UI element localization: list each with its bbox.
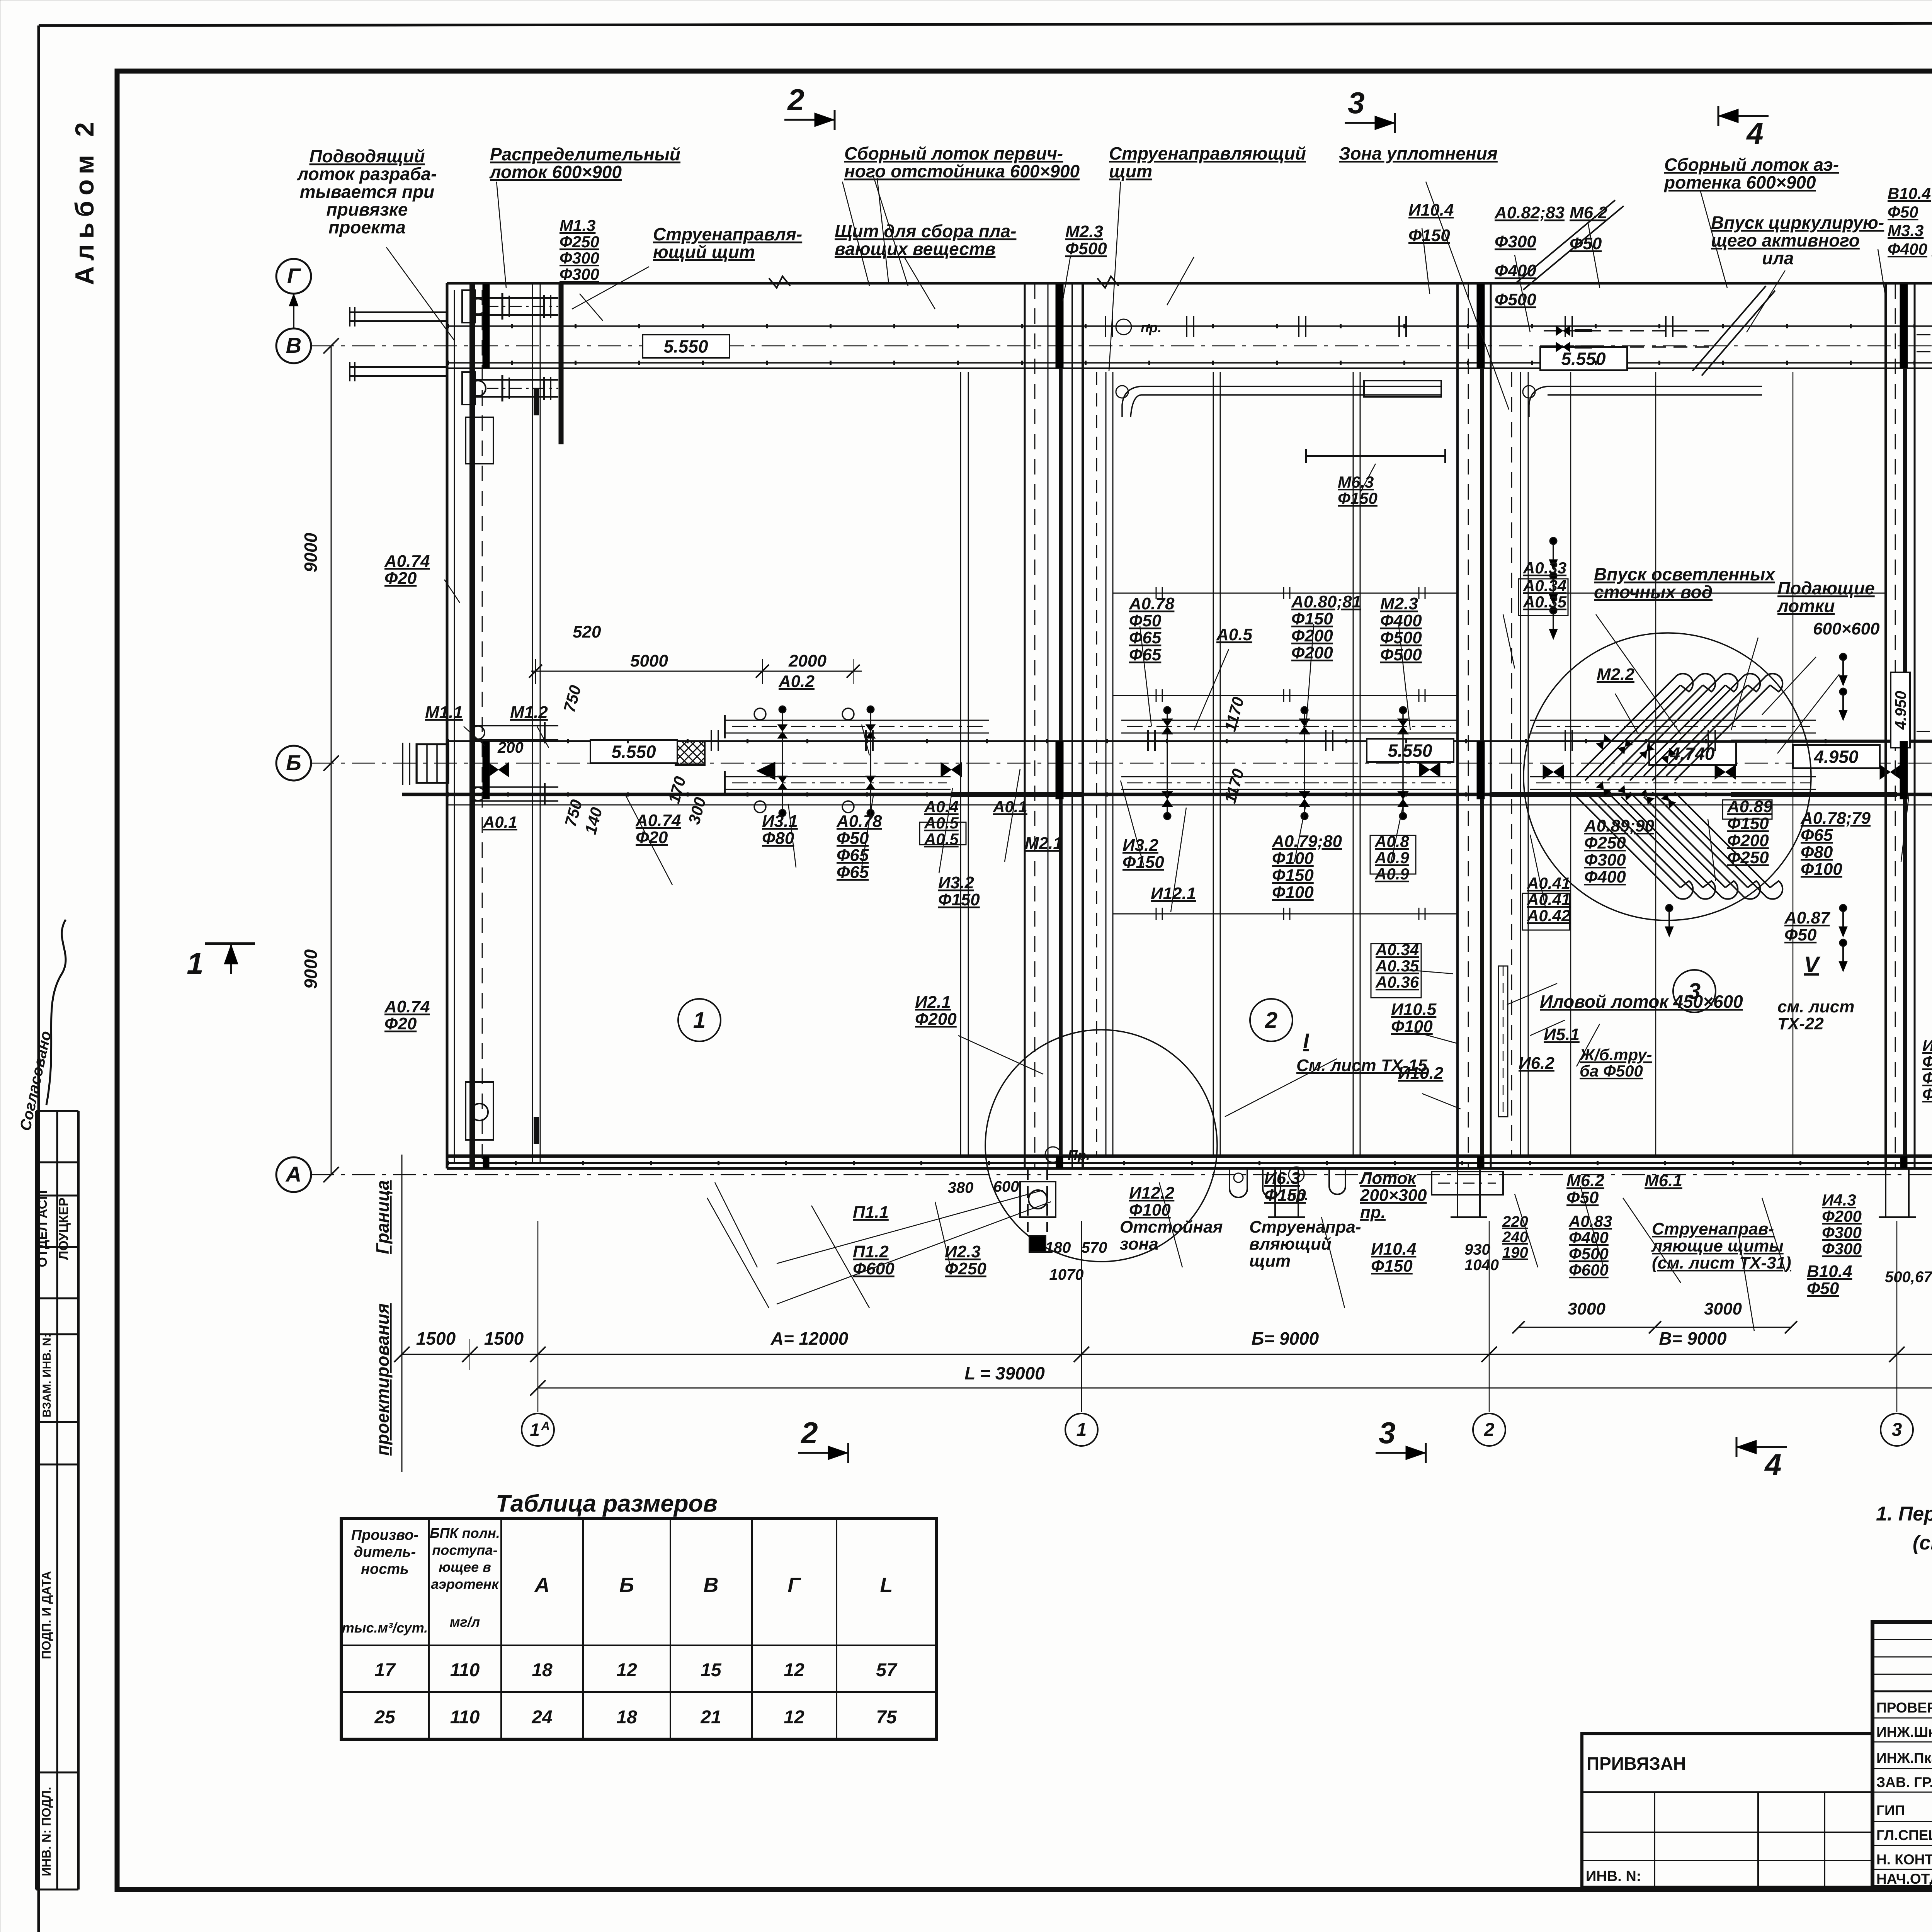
svg-text:3000: 3000 <box>1568 1299 1605 1318</box>
А0.2 pipe runs on Б tank1 <box>726 720 989 721</box>
svg-text:12: 12 <box>616 1660 637 1680</box>
svg-text:1500: 1500 <box>416 1328 456 1349</box>
axis line А <box>311 1174 1932 1175</box>
svg-text:И2.3: И2.3 <box>945 1242 981 1261</box>
svg-text:М1.1: М1.1 <box>425 703 463 722</box>
svg-text:ИНЖ.Шкат: ИНЖ.Шкат <box>1876 1724 1932 1740</box>
svg-text:И2.1: И2.1 <box>915 993 951 1012</box>
svg-text:М6.3: М6.3 <box>1338 473 1374 491</box>
tank2 left dashed riser <box>1096 372 1097 1156</box>
column 2 wall <box>1456 283 1459 1168</box>
tank2 partitions <box>1213 372 1214 1156</box>
svg-text:И10.5: И10.5 <box>1391 1000 1437 1019</box>
svg-text:М3.3: М3.3 <box>1888 221 1923 240</box>
svg-text:А0.5: А0.5 <box>924 830 959 848</box>
svg-text:ГЛ.СПЕЦ.: ГЛ.СПЕЦ. <box>1876 1827 1932 1843</box>
svg-text:1500: 1500 <box>484 1328 524 1349</box>
svg-text:190: 190 <box>1502 1244 1528 1261</box>
tank3 inner vertical <box>1570 372 1571 1156</box>
distribution channel walls <box>532 283 533 1163</box>
svg-text:Ф250: Ф250 <box>560 233 599 251</box>
svg-text:М2.3: М2.3 <box>1380 594 1418 613</box>
tank1 right inner vertical pair <box>960 372 961 1156</box>
svg-text:М1.2: М1.2 <box>510 703 548 722</box>
detail circle I <box>985 1030 1217 1262</box>
svg-text:М6.2: М6.2 <box>1566 1171 1604 1190</box>
svg-text:600: 600 <box>993 1178 1019 1195</box>
svg-text:240: 240 <box>1502 1229 1528 1246</box>
svg-text:В10.4: В10.4 <box>1807 1262 1852 1281</box>
svg-text:А0.74: А0.74 <box>384 997 430 1016</box>
approval scribble <box>46 920 66 1105</box>
section marks top <box>784 119 835 121</box>
svg-text:Ф200: Ф200 <box>1727 831 1769 850</box>
svg-text:А0.35: А0.35 <box>1523 593 1567 611</box>
svg-text:1: 1 <box>530 1420 540 1440</box>
svg-text:24: 24 <box>531 1707 552 1728</box>
svg-text:Струенапра-: Струенапра- <box>1249 1218 1361 1236</box>
svg-text:12: 12 <box>784 1707 804 1728</box>
left wall И2.1 assembly boxes <box>466 1082 493 1140</box>
axis circle А <box>276 1157 311 1192</box>
svg-text:щего активного: щего активного <box>1711 230 1860 250</box>
svg-text:Струенаправ-: Струенаправ- <box>1652 1219 1774 1238</box>
svg-text:И6.2: И6.2 <box>1519 1054 1554 1073</box>
svg-text:1040: 1040 <box>1464 1257 1499 1274</box>
svg-text:4: 4 <box>1746 116 1763 150</box>
axis circle В <box>276 328 311 363</box>
size table <box>341 1519 936 1739</box>
longitudinal pipes in Б band segments <box>1121 720 1457 721</box>
svg-text:И4.3: И4.3 <box>1822 1191 1856 1209</box>
svg-text:ЛОУЦКЕР: ЛОУЦКЕР <box>56 1197 71 1260</box>
svg-text:см. лист: см. лист <box>1777 997 1854 1016</box>
svg-text:9000: 9000 <box>301 949 321 989</box>
column 3 wall <box>1884 283 1887 1168</box>
svg-text:И10.2: И10.2 <box>1398 1064 1444 1083</box>
svg-text:Ф150: Ф150 <box>1408 226 1450 245</box>
svg-text:Б: Б <box>619 1573 634 1597</box>
svg-text:4.950: 4.950 <box>1813 747 1859 767</box>
svg-text:3: 3 <box>1892 1420 1902 1440</box>
svg-text:И10.4: И10.4 <box>1408 201 1454 219</box>
svg-text:15: 15 <box>701 1660 722 1680</box>
svg-text:Ф150: Ф150 <box>1264 1186 1306 1205</box>
svg-text:Лоток: Лоток <box>1359 1169 1417 1188</box>
column 1 wall <box>1024 283 1026 1168</box>
svg-text:А0.1: А0.1 <box>993 798 1027 816</box>
svg-text:ба Ф500: ба Ф500 <box>1580 1062 1643 1080</box>
left outer wall <box>446 283 449 1168</box>
svg-text:500,670: 500,670 <box>1885 1269 1932 1286</box>
svg-text:Ф400: Ф400 <box>1888 240 1927 258</box>
svg-text:Ф500: Ф500 <box>1495 290 1536 309</box>
svg-text:ющее в: ющее в <box>439 1559 491 1575</box>
svg-text:Ф150: Ф150 <box>1291 609 1333 628</box>
svg-text:Ф50: Ф50 <box>1807 1279 1839 1298</box>
tank2 cross members <box>1113 593 1457 594</box>
svg-text:А: А <box>541 1420 550 1432</box>
svg-text:М6.2: М6.2 <box>1570 203 1607 222</box>
svg-text:110: 110 <box>450 1707 480 1728</box>
привязан table <box>1582 1734 1872 1887</box>
svg-text:Ф65: Ф65 <box>1129 645 1162 664</box>
svg-text:18: 18 <box>616 1707 637 1728</box>
svg-text:И10.4: И10.4 <box>1371 1240 1416 1259</box>
svg-text:4.950: 4.950 <box>1892 691 1909 730</box>
svg-text:А0.79;80: А0.79;80 <box>1272 832 1342 851</box>
diagonal feed channels upper <box>1577 677 1675 776</box>
svg-text:I: I <box>1303 1029 1309 1053</box>
svg-text:Ф50: Ф50 <box>1129 611 1162 630</box>
svg-text:Б= 9000: Б= 9000 <box>1252 1328 1319 1349</box>
svg-text:1: 1 <box>693 1008 706 1033</box>
diagonal feed channels lower <box>1577 797 1675 895</box>
svg-text:М6.1: М6.1 <box>1645 1171 1682 1190</box>
svg-text:ИНВ. N:: ИНВ. N: <box>1586 1868 1641 1884</box>
svg-text:Ф500: Ф500 <box>1569 1245 1609 1263</box>
svg-text:3000: 3000 <box>1704 1299 1742 1318</box>
svg-text:ность: ность <box>361 1561 409 1577</box>
svg-text:1: 1 <box>1077 1420 1087 1440</box>
tank3 top П-pipe <box>1548 386 1762 387</box>
svg-text:Ф400: Ф400 <box>1584 867 1626 886</box>
svg-text:проекта: проекта <box>328 217 406 237</box>
svg-text:Ф100: Ф100 <box>1272 883 1314 902</box>
svg-text:ГИП: ГИП <box>1876 1803 1905 1818</box>
svg-text:520: 520 <box>573 622 601 641</box>
svg-text:5.550: 5.550 <box>1388 741 1432 761</box>
svg-text:А0.4: А0.4 <box>924 798 959 816</box>
crosshatched gate on Б <box>675 741 705 765</box>
svg-text:А: А <box>285 1162 301 1186</box>
tank3 left walls <box>1511 372 1512 1156</box>
svg-text:2: 2 <box>1265 1008 1277 1033</box>
svg-text:(см. лист ТХ-31): (см. лист ТХ-31) <box>1652 1253 1791 1272</box>
svg-text:Ф250: Ф250 <box>1727 848 1769 867</box>
flow guide shield black bar <box>559 284 564 444</box>
svg-text:Ф300: Ф300 <box>1584 850 1626 869</box>
svg-text:ного отстойника 600×900: ного отстойника 600×900 <box>844 161 1080 181</box>
svg-text:200: 200 <box>497 739 524 756</box>
svg-text:Ф400: Ф400 <box>1495 261 1536 280</box>
svg-text:Иловой лоток 450×600: Иловой лоток 450×600 <box>1540 992 1743 1012</box>
svg-text:лотки: лотки <box>1777 596 1835 616</box>
svg-text:Г: Г <box>287 264 301 288</box>
section marks bottom <box>798 1452 848 1454</box>
svg-text:Ф300: Ф300 <box>1822 1240 1862 1258</box>
svg-text:ПРИВЯЗАН: ПРИВЯЗАН <box>1587 1753 1686 1774</box>
svg-text:В: В <box>704 1573 719 1597</box>
svg-text:Ф100: Ф100 <box>1801 860 1842 879</box>
svg-text:3: 3 <box>1348 86 1364 120</box>
Г-В connector arrow <box>293 294 294 328</box>
branch valves tank2 <box>1167 713 1168 813</box>
svg-text:Альбом 2: Альбом 2 <box>70 117 99 285</box>
axis circle Б <box>276 746 311 781</box>
svg-text:ИНЖ.Пкат: ИНЖ.Пкат <box>1876 1750 1932 1766</box>
svg-text:Ф300: Ф300 <box>1495 232 1536 251</box>
svg-text:Ф100: Ф100 <box>1391 1017 1433 1036</box>
title block <box>1872 1622 1932 1887</box>
svg-text:21: 21 <box>700 1707 721 1728</box>
bundle valves <box>1596 735 1611 750</box>
tank numbers <box>678 999 721 1041</box>
svg-text:Ф300: Ф300 <box>1922 1085 1932 1103</box>
svg-text:17: 17 <box>374 1660 396 1680</box>
svg-text:пр.: пр. <box>1360 1203 1386 1222</box>
svg-text:1: 1 <box>187 946 203 980</box>
svg-text:Ф400: Ф400 <box>1569 1228 1609 1247</box>
svg-text:930: 930 <box>1464 1241 1490 1258</box>
svg-text:ЗАВ. ГР.: ЗАВ. ГР. <box>1876 1774 1932 1790</box>
tank3 dashed shaft <box>1498 966 1508 1117</box>
svg-text:V: V <box>1804 952 1821 977</box>
top diagonal pipes <box>1515 200 1615 284</box>
svg-text:9000: 9000 <box>301 532 321 572</box>
svg-text:М1.3: М1.3 <box>560 216 595 235</box>
dimension line row 1 <box>402 1354 1932 1355</box>
middle channel band Б <box>447 740 1932 742</box>
svg-text:проектирования: проектирования <box>372 1303 393 1456</box>
svg-text:Ф65: Ф65 <box>1129 628 1162 647</box>
Б channel left inlet hatch <box>417 744 448 783</box>
svg-text:А0.33: А0.33 <box>1523 559 1566 577</box>
svg-text:Ф50: Ф50 <box>1888 203 1918 221</box>
trough rect below А <box>1432 1172 1503 1195</box>
flange tick pairs on top band <box>1105 316 1106 337</box>
svg-text:ИНВ. N: ПОДЛ.: ИНВ. N: ПОДЛ. <box>39 1787 53 1876</box>
tank2 left wall <box>1105 372 1107 1156</box>
svg-text:Ф100: Ф100 <box>1272 849 1314 868</box>
detail mark 1 left <box>205 942 255 945</box>
svg-text:щит: щит <box>1249 1252 1291 1270</box>
svg-text:Н. КОНТР.: Н. КОНТР. <box>1876 1852 1932 1867</box>
svg-text:ТХ-22: ТХ-22 <box>1777 1014 1824 1033</box>
svg-text:Таблица размеров: Таблица размеров <box>496 1490 718 1517</box>
svg-text:Ф50: Ф50 <box>837 829 869 848</box>
svg-text:М2.3: М2.3 <box>1065 222 1103 241</box>
left vertical dimension 9000/9000 <box>331 346 332 1175</box>
bottom wall band А <box>447 1155 1932 1158</box>
svg-text:Сборный лоток аэ-: Сборный лоток аэ- <box>1664 155 1839 175</box>
svg-text:Ж/б.тру-: Ж/б.тру- <box>1579 1046 1652 1064</box>
flow arrow on Б <box>757 762 775 780</box>
svg-text:И5.1: И5.1 <box>1544 1025 1580 1044</box>
П1 leader extensions <box>777 1190 1043 1264</box>
svg-text:Струенаправля-: Струенаправля- <box>653 224 802 244</box>
pr circles <box>1116 319 1131 335</box>
svg-text:2: 2 <box>800 1416 818 1450</box>
svg-text:дитель-: дитель- <box>354 1544 416 1560</box>
svg-text:поступа-: поступа- <box>432 1542 497 1558</box>
svg-text:А0.78;79: А0.78;79 <box>1800 809 1871 828</box>
svg-text:5000: 5000 <box>630 651 668 670</box>
svg-text:12: 12 <box>784 1660 804 1680</box>
svg-text:М2.1: М2.1 <box>1025 834 1063 853</box>
svg-text:зона: зона <box>1120 1235 1158 1253</box>
tank2 top П-pipe <box>1141 386 1442 387</box>
grid circles <box>522 1413 554 1446</box>
svg-text:Ф400: Ф400 <box>1380 611 1422 630</box>
svg-text:А0.78: А0.78 <box>836 812 882 831</box>
level boxes Б band <box>590 740 677 763</box>
svg-text:Ф150: Ф150 <box>938 890 980 909</box>
svg-text:ПОДП. И ДАТА: ПОДП. И ДАТА <box>39 1571 53 1659</box>
svg-text:П1.2: П1.2 <box>853 1242 889 1261</box>
left inventory strip <box>35 1111 37 1889</box>
break marks top band <box>769 276 790 288</box>
tank3 partitions <box>1655 372 1656 1156</box>
svg-text:И3.1: И3.1 <box>762 812 798 831</box>
svg-text:18: 18 <box>532 1660 553 1680</box>
svg-text:мг/л: мг/л <box>450 1614 480 1630</box>
svg-text:57: 57 <box>876 1660 898 1680</box>
svg-text:А0.41: А0.41 <box>1527 874 1570 892</box>
svg-text:М2.2: М2.2 <box>1597 665 1634 684</box>
svg-text:600×600: 600×600 <box>1813 619 1880 638</box>
svg-text:Ф300: Ф300 <box>560 249 599 267</box>
svg-text:привязке: привязке <box>327 199 408 219</box>
svg-text:Ф250: Ф250 <box>1584 833 1626 852</box>
svg-text:Ф150: Ф150 <box>1272 866 1314 885</box>
svg-text:Впуск осветленных: Впуск осветленных <box>1594 564 1776 584</box>
svg-text:380: 380 <box>948 1179 974 1196</box>
svg-text:Ф250: Ф250 <box>945 1259 986 1278</box>
svg-text:сточных вод: сточных вод <box>1594 582 1713 602</box>
dim line 5000/2000 <box>531 671 862 672</box>
svg-text:Ф600: Ф600 <box>853 1259 895 1278</box>
svg-text:Ф50: Ф50 <box>1566 1188 1599 1207</box>
svg-text:Ф150: Ф150 <box>1338 489 1378 507</box>
vertical grid stubs to circles <box>537 1221 539 1412</box>
flanged connectors on left walls <box>469 297 558 299</box>
svg-text:110: 110 <box>450 1660 480 1680</box>
svg-text:(см. чертежи марки кж ).: (см. чертежи марки кж ). <box>1913 1532 1932 1554</box>
svg-text:А0.5: А0.5 <box>1216 625 1252 644</box>
svg-text:вляющий: вляющий <box>1249 1235 1332 1253</box>
svg-text:Ф80: Ф80 <box>1801 843 1833 862</box>
svg-text:Ф200: Ф200 <box>1822 1207 1862 1225</box>
svg-text:Ф150: Ф150 <box>1371 1257 1413 1276</box>
svg-text:L: L <box>880 1573 893 1597</box>
svg-text:Б: Б <box>286 750 301 775</box>
outer sheet border <box>39 22 1932 26</box>
svg-text:А0.87: А0.87 <box>1784 908 1831 927</box>
svg-text:Ф20: Ф20 <box>636 828 668 847</box>
svg-text:4: 4 <box>1764 1447 1781 1481</box>
svg-text:ила: ила <box>1762 248 1794 268</box>
svg-text:2000: 2000 <box>788 651 827 670</box>
svg-text:И3.2: И3.2 <box>1122 836 1158 855</box>
svg-text:Ф200: Ф200 <box>915 1010 957 1029</box>
svg-text:тывается при: тывается при <box>300 182 435 202</box>
pump pit bottom left <box>1020 1182 1056 1217</box>
svg-text:А0.89;90: А0.89;90 <box>1584 816 1655 835</box>
dashed inlet channels В band right <box>1917 334 1932 335</box>
svg-text:В= 9000: В= 9000 <box>1659 1328 1727 1349</box>
svg-text:А0.74: А0.74 <box>384 552 430 571</box>
axis line Б <box>311 763 1932 764</box>
svg-text:лоток разраба-: лоток разраба- <box>297 164 437 184</box>
svg-text:тыс.м³/сут.: тыс.м³/сут. <box>342 1620 428 1636</box>
svg-text:Ф20: Ф20 <box>384 569 417 588</box>
svg-text:аэротенк: аэротенк <box>431 1576 500 1592</box>
svg-text:200×300: 200×300 <box>1360 1186 1427 1205</box>
svg-text:Впуск циркулирую-: Впуск циркулирую- <box>1711 213 1884 233</box>
svg-text:ОТДЕЛ АСП: ОТДЕЛ АСП <box>35 1190 50 1267</box>
svg-text:П1.1: П1.1 <box>853 1203 889 1222</box>
rotated level box on column3 <box>1891 672 1910 748</box>
svg-text:1. Переходные мостики через: 1. Переходные мостики через воздуховоды … <box>1876 1503 1932 1525</box>
axis circle Г <box>276 259 311 294</box>
U-tube drops below А band <box>1230 1168 1247 1197</box>
svg-text:А0.78: А0.78 <box>1129 594 1175 613</box>
svg-text:Г: Г <box>787 1573 801 1597</box>
weld dots on channel lines <box>447 324 1932 328</box>
svg-text:В10.4: В10.4 <box>1888 184 1931 202</box>
svg-text:И3.2: И3.2 <box>938 873 974 892</box>
svg-text:2: 2 <box>1484 1420 1495 1440</box>
svg-text:Ф65: Ф65 <box>837 863 869 882</box>
svg-text:75: 75 <box>876 1707 897 1728</box>
svg-text:Струенаправляющий: Струенаправляющий <box>1109 143 1306 163</box>
И2.2 dashed channel to tank4 <box>1917 731 1932 732</box>
svg-text:А0.1: А0.1 <box>483 813 517 831</box>
svg-text:Граница: Граница <box>372 1180 393 1254</box>
М6.3 clamp assembly <box>1364 381 1441 397</box>
А band lower stubs <box>1274 1168 1276 1217</box>
svg-text:А0.82;83: А0.82;83 <box>1494 203 1565 222</box>
dimension line row 2 (L) <box>538 1388 1932 1389</box>
inlet channel stub left top <box>350 311 447 313</box>
svg-text:А0.80;81: А0.80;81 <box>1291 592 1361 611</box>
branch valve stems tank1 <box>782 709 783 811</box>
svg-text:Ф50: Ф50 <box>1784 925 1817 944</box>
svg-text:Зона уплотнения: Зона уплотнения <box>1339 143 1498 163</box>
svg-text:Ф300: Ф300 <box>560 265 599 283</box>
boundary line left <box>401 1155 403 1472</box>
svg-text:пр.: пр. <box>1141 320 1162 335</box>
svg-text:ляющие щиты: ляющие щиты <box>1651 1236 1784 1255</box>
valves on Б axis <box>488 762 509 777</box>
svg-text:Ф300: Ф300 <box>1922 1069 1932 1087</box>
svg-text:Сборный лоток первич-: Сборный лоток первич- <box>844 143 1063 163</box>
svg-text:Ф150: Ф150 <box>1122 853 1164 872</box>
svg-text:И12.2: И12.2 <box>1129 1184 1175 1202</box>
level boxes top band <box>643 335 730 358</box>
dim line 3000+3000 <box>1519 1327 1791 1328</box>
svg-text:L = 39000: L = 39000 <box>964 1363 1045 1383</box>
axis line В <box>311 345 1932 347</box>
svg-text:И4.3: И4.3 <box>1922 1036 1932 1054</box>
svg-text:Ф50: Ф50 <box>1570 234 1602 253</box>
svg-text:5.550: 5.550 <box>1561 349 1606 369</box>
svg-text:ВЗАМ. ИНВ. N:: ВЗАМ. ИНВ. N: <box>41 1334 53 1418</box>
svg-text:Подающие: Подающие <box>1777 578 1875 598</box>
svg-text:2: 2 <box>787 83 804 117</box>
svg-text:А0.42: А0.42 <box>1527 906 1570 925</box>
svg-text:1070: 1070 <box>1049 1266 1084 1283</box>
svg-text:ющий щит: ющий щит <box>653 242 755 262</box>
black wall fills in bands <box>483 284 490 368</box>
svg-text:Ф80: Ф80 <box>762 829 794 848</box>
svg-text:3: 3 <box>1379 1416 1395 1450</box>
svg-text:180: 180 <box>1045 1239 1071 1256</box>
svg-text:Подводящий: Подводящий <box>309 146 425 166</box>
svg-text:Ф200: Ф200 <box>1922 1053 1932 1071</box>
svg-text:НАЧ.ОТД.: НАЧ.ОТД. <box>1876 1871 1932 1887</box>
